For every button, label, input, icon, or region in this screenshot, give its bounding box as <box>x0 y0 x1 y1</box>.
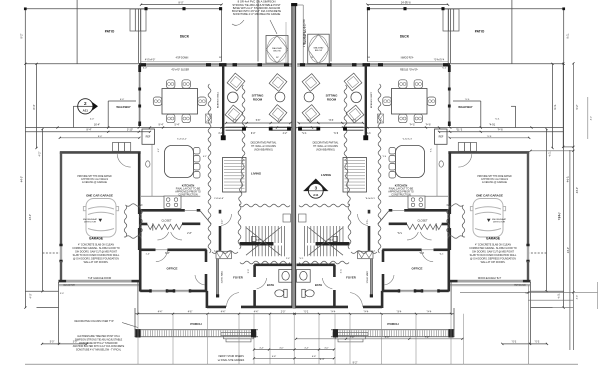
svg-text:8'-4": 8'-4" <box>33 104 36 109</box>
svg-text:6'-8": 6'-8" <box>165 253 170 255</box>
svg-text:(2)2x10 HDR: (2)2x10 HDR <box>63 284 75 286</box>
svg-text:4'-4": 4'-4" <box>577 295 579 300</box>
svg-text:4'-4": 4'-4" <box>304 347 309 349</box>
svg-text:DETECTOR: DETECTOR <box>493 222 505 224</box>
svg-text:4'-4": 4'-4" <box>221 312 226 314</box>
svg-text:2'-0": 2'-0" <box>281 312 286 314</box>
svg-text:BEARING WALL: BEARING WALL <box>217 91 220 108</box>
svg-text:4'-0": 4'-0" <box>30 293 33 298</box>
svg-text:6'-0": 6'-0" <box>143 68 148 70</box>
svg-text:4'SP DOWN: 4'SP DOWN <box>176 57 189 59</box>
svg-text:REF: REF <box>146 135 151 138</box>
svg-text:LIVING: LIVING <box>321 173 332 177</box>
svg-text:PROVIDE 5/8" THK FIRE RATED: PROVIDE 5/8" THK FIRE RATED <box>77 175 112 178</box>
svg-text:DECORATIVE COLUMN OVER TYP: DECORATIVE COLUMN OVER TYP <box>74 320 114 323</box>
svg-text:4'-6": 4'-6" <box>233 120 238 122</box>
svg-text:SONOTUBE 4'-0" MIN BELOW - TYP: SONOTUBE 4'-0" MIN BELOW - TYPICAL <box>76 349 122 352</box>
svg-text:WALKWAY: WALKWAY <box>116 105 130 109</box>
svg-text:SONOTUBE 4'-0" MIN BELOW GRADE: SONOTUBE 4'-0" MIN BELOW GRADE <box>233 12 281 16</box>
svg-text:4'-6": 4'-6" <box>278 120 283 122</box>
svg-text:7'-0": 7'-0" <box>222 220 224 225</box>
svg-text:A11: A11 <box>83 109 89 113</box>
svg-text:7'x8' GARAGE DOOR: 7'x8' GARAGE DOOR <box>88 277 112 280</box>
svg-text:PATIO: PATIO <box>475 30 485 34</box>
svg-text:FOYER: FOYER <box>233 275 243 279</box>
svg-text:CONSTRUCTION: CONSTRUCTION <box>391 194 411 197</box>
svg-text:GYP BD ON 1 & 2 WALLS: GYP BD ON 1 & 2 WALLS <box>81 178 109 181</box>
svg-text:ONE CAR GARAGE: ONE CAR GARAGE <box>86 193 113 197</box>
svg-text:WALKWAY: WALKWAY <box>458 105 472 109</box>
svg-text:3'-0": 3'-0" <box>60 293 64 295</box>
svg-text:44'-0": 44'-0" <box>576 187 579 193</box>
svg-text:6'-0": 6'-0" <box>120 99 125 101</box>
svg-text:4'-4": 4'-4" <box>259 347 264 349</box>
svg-text:BATH: BATH <box>315 283 322 287</box>
svg-text:CLOSET: CLOSET <box>161 219 171 222</box>
svg-text:4'0"x4'0" SLIDER: 4'0"x4'0" SLIDER <box>171 70 189 72</box>
svg-text:DECK: DECK <box>180 35 190 39</box>
svg-text:2x4 ML WALL: 2x4 ML WALL <box>221 270 224 283</box>
svg-text:24'-0": 24'-0" <box>401 2 407 5</box>
svg-text:2'-8": 2'-8" <box>187 233 192 235</box>
svg-text:CLOSET: CLOSET <box>417 219 427 222</box>
svg-text:14'-0": 14'-0" <box>29 214 32 220</box>
svg-text:& CEILING @ GARAGE: & CEILING @ GARAGE <box>82 181 107 184</box>
svg-text:GARAGE: GARAGE <box>486 237 500 241</box>
svg-text:OFFICE: OFFICE <box>167 267 178 271</box>
svg-text:OFFICE: OFFICE <box>412 267 423 271</box>
svg-text:(NON-BEARING): (NON-BEARING) <box>316 148 335 151</box>
svg-text:DECK: DECK <box>400 35 410 39</box>
svg-text:w/ FINAL SITE GRADES: w/ FINAL SITE GRADES <box>218 359 245 362</box>
svg-text:GYP BD ON 1 & 2 WALLS: GYP BD ON 1 & 2 WALLS <box>481 178 509 181</box>
svg-text:5'-4": 5'-4" <box>175 123 180 126</box>
svg-text:16'-4": 16'-4" <box>94 123 100 126</box>
svg-text:4'-2": 4'-2" <box>283 133 288 135</box>
svg-text:4'-2": 4'-2" <box>591 116 593 121</box>
svg-text:2: 2 <box>84 101 87 106</box>
svg-text:5'-8": 5'-8" <box>256 120 261 122</box>
svg-text:BELOW: BELOW <box>273 51 280 53</box>
svg-text:4'-4": 4'-4" <box>158 312 163 314</box>
svg-text:VERIFY STAIR RISERS: VERIFY STAIR RISERS <box>218 355 244 358</box>
svg-text:9'-2": 9'-2" <box>353 361 358 364</box>
svg-text:9'-4": 9'-4" <box>320 358 325 361</box>
svg-text:2'-8"x6'-8": 2'-8"x6'-8" <box>214 198 224 200</box>
svg-text:WALKWAY: WALKWAY <box>272 47 283 50</box>
svg-text:9'-2": 9'-2" <box>21 33 24 38</box>
svg-text:34'-0": 34'-0" <box>559 212 562 218</box>
svg-text:9'-4": 9'-4" <box>159 123 164 126</box>
svg-text:14'-0": 14'-0" <box>567 247 570 253</box>
svg-text:8'-4": 8'-4" <box>87 129 92 132</box>
svg-text:6'-8": 6'-8" <box>272 356 277 358</box>
svg-text:DETECTOR: DETECTOR <box>84 222 96 224</box>
svg-text:6'-8": 6'-8" <box>312 356 317 358</box>
svg-text:36": 36" <box>276 57 279 59</box>
svg-text:4'-2": 4'-2" <box>39 151 42 156</box>
svg-text:5'-4"x4'-2": 5'-4"x4'-2" <box>177 138 187 140</box>
svg-text:4'-0"x4'-0": 4'-0"x4'-0" <box>145 59 155 61</box>
svg-text:3'-0": 3'-0" <box>73 342 78 344</box>
svg-text:3'-0": 3'-0" <box>248 269 250 274</box>
svg-text:CONSTRUCTION: CONSTRUCTION <box>178 194 198 197</box>
svg-text:LIVING: LIVING <box>251 172 262 176</box>
svg-text:9'-2": 9'-2" <box>576 104 579 109</box>
svg-text:BELOW: BELOW <box>315 50 322 52</box>
svg-text:4'-6": 4'-6" <box>188 312 193 314</box>
svg-text:PORCH: PORCH <box>387 322 399 326</box>
svg-text:2'-4": 2'-4" <box>286 258 291 260</box>
svg-text:4'-4": 4'-4" <box>254 312 259 314</box>
svg-text:A11: A11 <box>313 193 319 197</box>
svg-text:3'-10": 3'-10" <box>127 129 133 132</box>
svg-text:PATIO: PATIO <box>105 30 115 34</box>
svg-text:ROOM: ROOM <box>327 97 337 101</box>
svg-text:7'-0": 7'-0" <box>350 337 355 339</box>
svg-text:ROOM: ROOM <box>253 97 263 101</box>
svg-text:GARAGE: GARAGE <box>89 237 103 241</box>
svg-text:4'-0": 4'-0" <box>279 347 284 349</box>
svg-text:9'-0": 9'-0" <box>251 133 256 135</box>
svg-text:PORCH: PORCH <box>190 322 202 326</box>
svg-text:BATH: BATH <box>267 283 274 287</box>
svg-text:& CEILING @ GARAGE: & CEILING @ GARAGE <box>482 181 507 184</box>
svg-text:7'-2": 7'-2" <box>425 337 430 339</box>
svg-text:4'-2": 4'-2" <box>218 133 223 135</box>
svg-text:WALL AT O/H DOORS.: WALL AT O/H DOORS. <box>481 261 506 264</box>
svg-text:4'-0": 4'-0" <box>90 119 95 121</box>
svg-text:WALL AT O/H DOORS.: WALL AT O/H DOORS. <box>84 261 109 264</box>
svg-text:6'-1": 6'-1" <box>203 156 207 158</box>
svg-text:SMOKE/HEAT: SMOKE/HEAT <box>83 218 98 221</box>
svg-text:8'-0": 8'-0" <box>179 2 184 5</box>
svg-text:2 HR FIREWALL UL# U347: 2 HR FIREWALL UL# U347 <box>303 18 306 47</box>
svg-text:WALKWAY: WALKWAY <box>314 47 325 50</box>
svg-text:44'-0": 44'-0" <box>21 176 24 182</box>
svg-text:5'-4": 5'-4" <box>385 337 390 339</box>
svg-text:14 R: 14 R <box>256 240 261 242</box>
svg-text:SMOKE/HEAT: SMOKE/HEAT <box>492 218 507 221</box>
svg-text:2'-0": 2'-0" <box>214 251 219 253</box>
svg-text:(NON-BEARING): (NON-BEARING) <box>254 148 273 151</box>
svg-text:PROVIDE 5/8" THK FIRE RATED: PROVIDE 5/8" THK FIRE RATED <box>477 175 512 178</box>
svg-text:1'-4": 1'-4" <box>146 253 151 255</box>
svg-text:4'-0": 4'-0" <box>324 347 329 349</box>
svg-text:REF: REF <box>439 135 444 138</box>
svg-text:ONE CAR GARAGE: ONE CAR GARAGE <box>476 193 503 197</box>
svg-text:4'-2": 4'-2" <box>158 148 160 152</box>
svg-text:36": 36" <box>219 57 222 59</box>
svg-text:8'-0": 8'-0" <box>98 136 103 138</box>
svg-text:5'-0": 5'-0" <box>50 342 55 344</box>
svg-text:FOYER: FOYER <box>346 275 356 279</box>
